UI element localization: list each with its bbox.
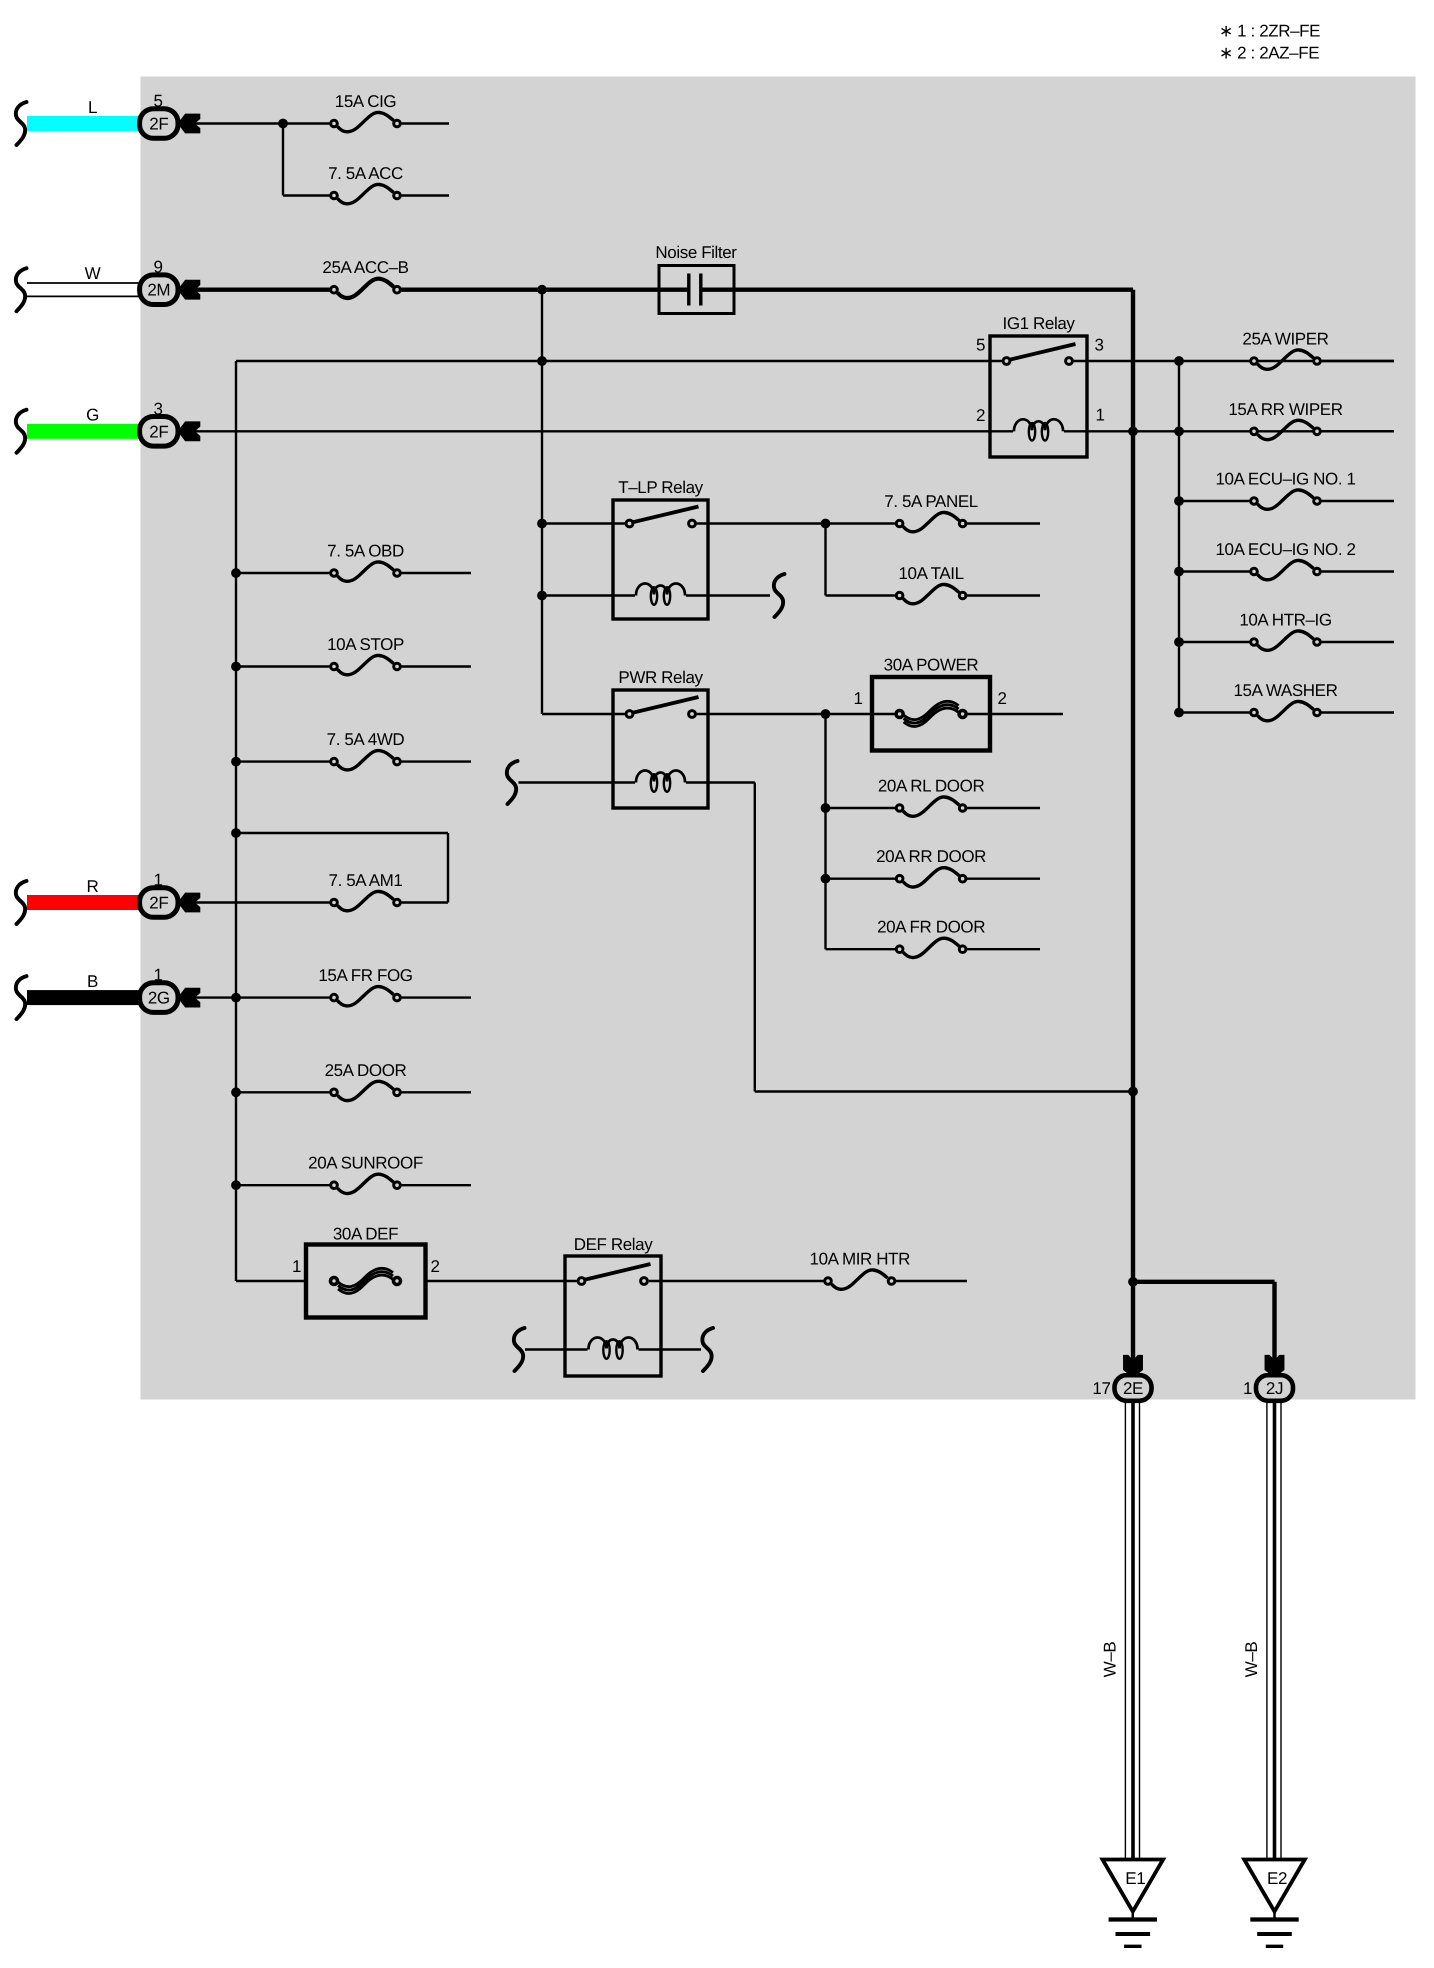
svg-text:2F: 2F xyxy=(149,894,168,913)
wire xyxy=(401,1091,471,1093)
svg-text:W–B: W–B xyxy=(1101,1642,1120,1678)
wire xyxy=(967,878,1040,880)
wire thick xyxy=(1133,1280,1275,1284)
junction xyxy=(538,357,547,366)
wire xyxy=(236,1091,334,1093)
arrow into 2E xyxy=(1124,1355,1143,1377)
wire xyxy=(696,522,899,524)
wire xyxy=(1179,570,1254,572)
wire W-B shielded to ground xyxy=(1267,1401,1281,1860)
junction xyxy=(538,285,547,294)
fuse 7. 5A OBD xyxy=(327,542,404,582)
svg-text:2F: 2F xyxy=(149,115,168,134)
fuse 7.5A PANEL xyxy=(884,492,978,532)
svg-text:20A RL DOOR: 20A RL DOOR xyxy=(878,777,985,796)
junction xyxy=(1175,567,1184,576)
svg-text:PWR Relay: PWR Relay xyxy=(618,668,703,687)
svg-text:1: 1 xyxy=(153,871,162,890)
svg-text:20A RR DOOR: 20A RR DOOR xyxy=(876,847,986,866)
junction xyxy=(538,519,547,528)
svg-text:1: 1 xyxy=(853,689,862,708)
wire thick xyxy=(401,288,687,292)
break symbol xyxy=(514,1328,525,1371)
IG1 relay U1 xyxy=(976,314,1105,457)
junction xyxy=(821,519,830,528)
svg-text:2J: 2J xyxy=(1266,1379,1283,1398)
ground E2 xyxy=(1244,1860,1305,1947)
wire xyxy=(401,760,471,762)
wire xyxy=(967,522,1040,524)
wire xyxy=(826,807,900,809)
wire xyxy=(401,122,449,124)
fuse 20A FR DOOR xyxy=(877,918,985,958)
svg-text:B: B xyxy=(87,972,98,991)
fuse 20A SUNROOF xyxy=(308,1154,423,1194)
wire xyxy=(542,713,630,715)
svg-text:10A STOP: 10A STOP xyxy=(327,635,404,654)
junction xyxy=(1175,497,1184,506)
fusible link 30A DEF xyxy=(292,1225,440,1318)
wire xyxy=(1321,430,1394,432)
T-LP relay U2 xyxy=(613,478,708,619)
fuse 25A ACC-B xyxy=(322,258,408,298)
connector 2M pin 9 wire W xyxy=(16,264,178,311)
junction block shaded background xyxy=(141,77,1416,1400)
wire xyxy=(686,781,755,783)
junction xyxy=(538,591,547,600)
wire xyxy=(1179,500,1254,502)
wire xyxy=(1179,641,1254,643)
junction xyxy=(1175,427,1184,436)
svg-text:9: 9 xyxy=(153,258,162,277)
junction xyxy=(232,1181,241,1190)
wire xyxy=(1321,360,1394,362)
fuse 15A CIG xyxy=(331,92,401,132)
junction xyxy=(232,829,241,838)
svg-text:10A ECU–IG NO. 2: 10A ECU–IG NO. 2 xyxy=(1215,540,1355,559)
wire xyxy=(1321,641,1394,643)
junction xyxy=(1129,1087,1138,1096)
wire thick vertical main feed xyxy=(1131,290,1135,1361)
junction xyxy=(232,569,241,578)
svg-text:10A TAIL: 10A TAIL xyxy=(899,564,964,583)
wire xyxy=(426,1280,582,1282)
arrow into 2M xyxy=(178,280,200,299)
wire xyxy=(649,1280,828,1282)
svg-text:3: 3 xyxy=(153,399,162,418)
connector 2F pin 3 wire G xyxy=(16,406,178,453)
arrow into 2F xyxy=(178,114,200,133)
fuse 15A FR FOG xyxy=(318,966,412,1006)
junction xyxy=(232,757,241,766)
fuse 20A RR DOOR xyxy=(876,847,986,887)
wire coil feed xyxy=(519,781,636,783)
svg-text:25A WIPER: 25A WIPER xyxy=(1242,330,1328,349)
svg-text:15A FR FOG: 15A FR FOG xyxy=(318,966,412,985)
junction xyxy=(279,119,288,128)
wire xyxy=(401,665,471,667)
fuse 10A HTR-IG xyxy=(1239,611,1331,651)
svg-text:5: 5 xyxy=(153,92,162,111)
svg-text:7. 5A 4WD: 7. 5A 4WD xyxy=(327,730,405,749)
svg-text:15A RR WIPER: 15A RR WIPER xyxy=(1228,400,1342,419)
wire xyxy=(282,124,284,196)
connector 2E pin 17 xyxy=(1092,1375,1151,1401)
wire xyxy=(686,594,770,596)
fuse 10A TAIL xyxy=(896,564,966,604)
fuse 20A RL DOOR xyxy=(878,777,985,817)
svg-text:L: L xyxy=(88,98,97,117)
wire xyxy=(967,948,1040,950)
wire xyxy=(195,996,334,998)
svg-text:5: 5 xyxy=(976,336,985,355)
fuse 25A DOOR xyxy=(325,1061,407,1101)
svg-text:2: 2 xyxy=(976,406,985,425)
svg-text:25A ACC–B: 25A ACC–B xyxy=(322,258,408,277)
svg-text:15A CIG: 15A CIG xyxy=(335,92,396,111)
wire xyxy=(542,522,630,524)
wire thick xyxy=(1272,1282,1276,1361)
wire thick xyxy=(703,288,1134,292)
wire W-B shielded to ground xyxy=(1125,1401,1139,1860)
arrow into 2J xyxy=(1265,1355,1284,1377)
wire xyxy=(1321,711,1394,713)
wire xyxy=(401,572,471,574)
svg-text:7. 5A AM1: 7. 5A AM1 xyxy=(329,871,403,890)
fuse 10A MIR HTR xyxy=(810,1250,911,1290)
svg-text:Noise Filter: Noise Filter xyxy=(655,243,737,262)
svg-text:1: 1 xyxy=(292,1257,301,1276)
fuse 25A WIPER xyxy=(1242,330,1328,370)
junction xyxy=(821,804,830,813)
wire xyxy=(236,1280,306,1282)
wire xyxy=(401,1184,471,1186)
junction xyxy=(1175,638,1184,647)
wire bus xyxy=(541,290,543,714)
svg-text:20A SUNROOF: 20A SUNROOF xyxy=(308,1154,423,1173)
fuse 10A ECU-IG NO. 1 xyxy=(1215,470,1355,510)
wire xyxy=(967,807,1040,809)
fuse 10A STOP xyxy=(327,635,404,675)
svg-text:2F: 2F xyxy=(149,422,168,441)
wire xyxy=(755,1090,1133,1092)
fuse 15A WASHER xyxy=(1233,681,1337,721)
wire xyxy=(826,948,900,950)
wire xyxy=(826,878,900,880)
svg-text:DEF Relay: DEF Relay xyxy=(574,1235,653,1254)
svg-text:1: 1 xyxy=(1095,406,1104,425)
svg-text:1: 1 xyxy=(153,966,162,985)
svg-text:T–LP Relay: T–LP Relay xyxy=(618,478,703,497)
connector 2J pin 1 xyxy=(1243,1375,1293,1401)
svg-text:7. 5A ACC: 7. 5A ACC xyxy=(328,164,403,183)
wire bus right xyxy=(1178,361,1180,713)
svg-text:E1: E1 xyxy=(1125,1869,1145,1888)
junction xyxy=(1175,357,1184,366)
svg-text:R: R xyxy=(87,877,99,896)
wire xyxy=(447,833,449,903)
connector 2G pin 1 wire B xyxy=(16,972,178,1019)
svg-text:20A FR DOOR: 20A FR DOOR xyxy=(877,918,985,937)
arrow into 2G xyxy=(178,988,200,1007)
svg-text:7. 5A OBD: 7. 5A OBD xyxy=(327,542,404,561)
junction xyxy=(232,1088,241,1097)
svg-text:2G: 2G xyxy=(148,989,170,1008)
ground E1 xyxy=(1103,1860,1164,1947)
wire xyxy=(696,713,899,715)
wire xyxy=(236,360,1007,362)
wire xyxy=(1179,711,1254,713)
junction xyxy=(232,662,241,671)
capacitor plates xyxy=(687,274,690,306)
DEF relay U4 xyxy=(565,1235,661,1376)
wire xyxy=(283,194,334,196)
wire xyxy=(401,194,449,196)
fuse 7.5A ACC xyxy=(328,164,403,204)
junction xyxy=(1129,1277,1138,1286)
svg-text:W–B: W–B xyxy=(1242,1642,1261,1678)
fuse 7.5A AM1 xyxy=(329,871,403,911)
junction xyxy=(1129,427,1138,436)
wire thick xyxy=(195,288,334,292)
wire pin3 out xyxy=(1073,360,1394,362)
wire xyxy=(195,122,334,124)
fuse 15A RR WIPER xyxy=(1228,400,1342,440)
junction xyxy=(821,874,830,883)
fuse 7. 5A 4WD xyxy=(327,730,405,770)
wire coil feed xyxy=(542,594,635,596)
wire xyxy=(236,832,448,834)
wire xyxy=(1321,570,1394,572)
break symbol xyxy=(702,1328,713,1371)
wire G to coil xyxy=(195,430,1013,432)
wire xyxy=(967,713,1063,715)
svg-text:2: 2 xyxy=(997,689,1006,708)
wire xyxy=(401,996,471,998)
svg-text:10A HTR–IG: 10A HTR–IG xyxy=(1239,611,1331,630)
svg-text:7. 5A PANEL: 7. 5A PANEL xyxy=(884,492,978,511)
wire xyxy=(639,1348,702,1350)
wire xyxy=(1321,500,1394,502)
wire xyxy=(826,594,900,596)
svg-text:∗ 1 : 2ZR–FE: ∗ 1 : 2ZR–FE xyxy=(1219,22,1320,41)
wire xyxy=(896,1280,967,1282)
wire xyxy=(967,594,1040,596)
connector 2F pin 1 wire R xyxy=(16,877,178,924)
wire xyxy=(236,760,334,762)
wire bus left xyxy=(235,361,237,1281)
svg-text:10A MIR HTR: 10A MIR HTR xyxy=(810,1250,911,1269)
svg-text:2E: 2E xyxy=(1123,1379,1143,1398)
svg-text:2: 2 xyxy=(430,1257,439,1276)
break symbol xyxy=(507,761,518,804)
connector 2F pin 5 wire L xyxy=(16,98,178,145)
svg-text:IG1 Relay: IG1 Relay xyxy=(1003,314,1076,333)
fusible link 30A POWER xyxy=(853,656,1006,751)
svg-text:10A ECU–IG NO. 1: 10A ECU–IG NO. 1 xyxy=(1215,470,1355,489)
svg-text:30A DEF: 30A DEF xyxy=(333,1225,398,1244)
svg-text:25A DOOR: 25A DOOR xyxy=(325,1061,407,1080)
junction xyxy=(821,710,830,719)
svg-text:∗ 2 : 2AZ–FE: ∗ 2 : 2AZ–FE xyxy=(1219,44,1319,63)
wire xyxy=(236,1184,334,1186)
svg-text:3: 3 xyxy=(1094,336,1103,355)
wire xyxy=(824,714,826,949)
arrow into 2F xyxy=(178,422,200,441)
junction xyxy=(232,993,241,1002)
PWR relay U3 xyxy=(613,668,708,808)
svg-text:E2: E2 xyxy=(1267,1869,1287,1888)
wire pin1 out xyxy=(1064,430,1394,432)
svg-text:17: 17 xyxy=(1092,1379,1110,1398)
wire xyxy=(236,572,334,574)
svg-text:2M: 2M xyxy=(147,281,170,300)
wire xyxy=(401,901,448,903)
junction xyxy=(1175,708,1184,717)
svg-text:15A WASHER: 15A WASHER xyxy=(1233,681,1337,700)
svg-text:G: G xyxy=(86,406,99,425)
wire xyxy=(824,524,826,596)
svg-text:30A POWER: 30A POWER xyxy=(884,656,979,675)
wire xyxy=(525,1348,588,1350)
noise filter box xyxy=(655,243,737,314)
arrow into 2F xyxy=(178,893,200,912)
wire xyxy=(754,783,756,1092)
svg-text:W: W xyxy=(85,264,101,283)
fuse 10A ECU-IG NO. 2 xyxy=(1215,540,1355,580)
svg-text:1: 1 xyxy=(1243,1379,1252,1398)
wire xyxy=(195,901,334,903)
wire xyxy=(236,665,334,667)
break symbol xyxy=(774,574,785,617)
